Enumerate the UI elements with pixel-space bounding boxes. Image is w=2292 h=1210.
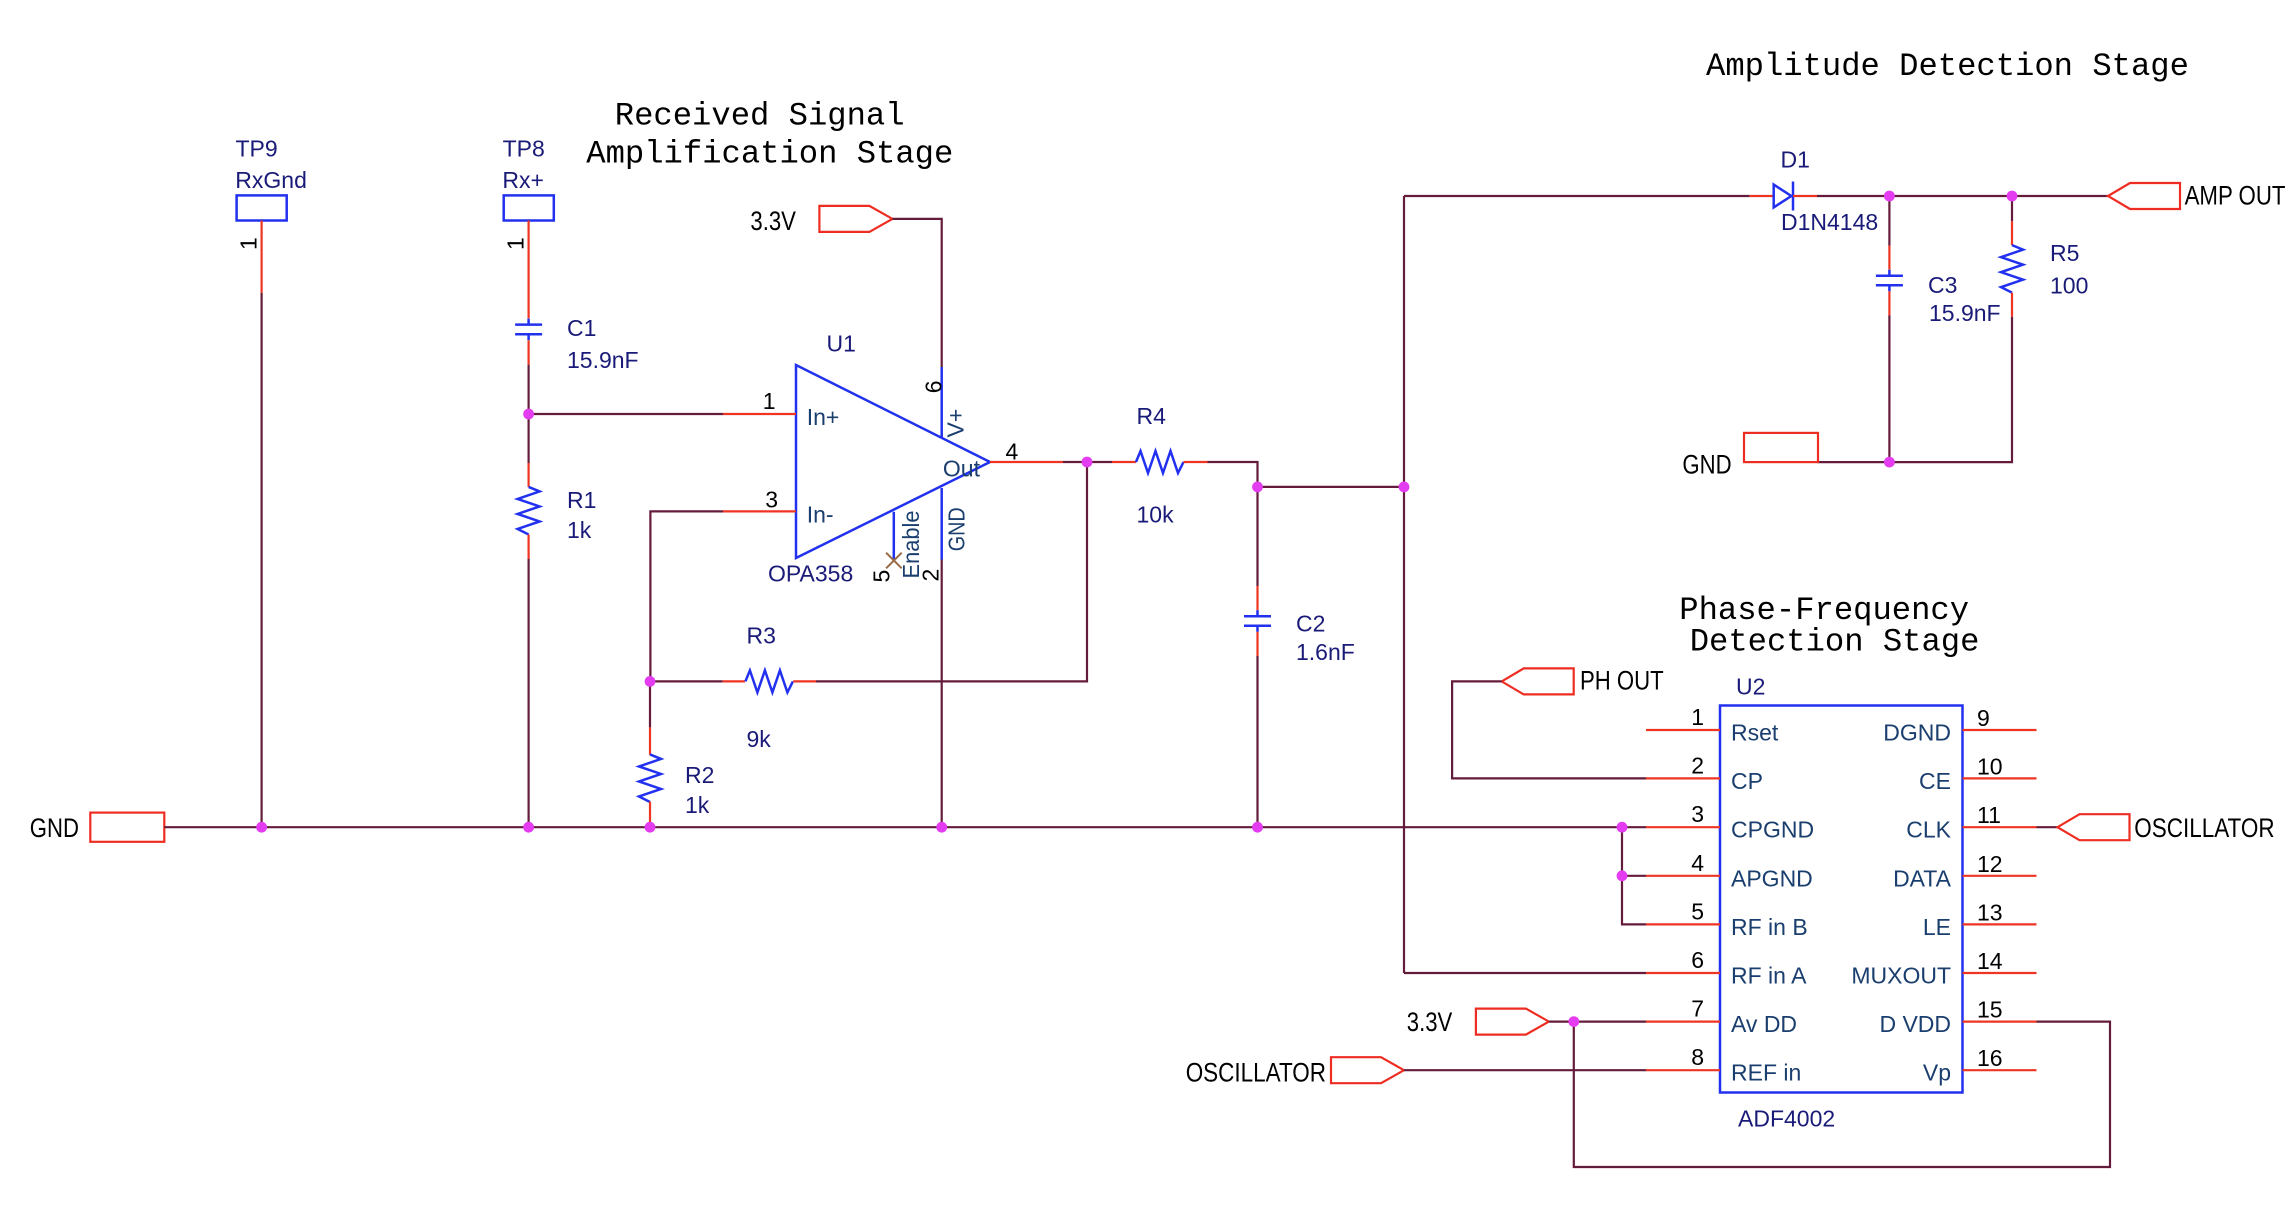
svg-text:C2: C2 [1296, 611, 1325, 637]
svg-text:R3: R3 [747, 623, 776, 649]
IC U2 ADF4002 body [1720, 674, 1963, 1132]
svg-text:D VDD: D VDD [1879, 1011, 1951, 1037]
wire OSCILLATOR to REF in [1404, 1069, 1646, 1071]
svg-text:TP9: TP9 [236, 136, 278, 162]
wire CLK to OSCILLATOR port [2037, 826, 2058, 828]
wire TP9 to GND bus [261, 293, 263, 827]
svg-text:PH OUT: PH OUT [1580, 666, 1664, 696]
svg-text:1: 1 [763, 388, 776, 414]
svg-text:R4: R4 [1137, 403, 1167, 429]
U2 pin 12 DATA [1893, 851, 2036, 892]
wire R4 to C2 node [1208, 462, 1258, 487]
capacitor C2 1.6nF [1244, 586, 1355, 665]
wire C3 to GND node [1888, 316, 1890, 463]
test point TP9 (RxGnd) [235, 136, 307, 221]
junction R5 top node [2007, 191, 2018, 202]
wire R1 to GND bus [527, 559, 529, 827]
bottom lead of C1 [527, 340, 529, 364]
power port 3.3V (U2 supply) [1407, 1007, 1549, 1037]
resistor R4 10k [1112, 403, 1208, 528]
resistor R3 9k [650, 623, 816, 753]
wire R5 node to AMP OUT port [2012, 195, 2108, 197]
power port 3.3V (op-amp supply) [750, 206, 892, 236]
wire C1 to node A [527, 365, 529, 414]
svg-text:GND: GND [30, 813, 79, 843]
wire R5 to GND wire [1818, 317, 2012, 462]
title: Amplitude Detection Stage [1706, 48, 2189, 85]
wire R5 node down to R5 [2011, 196, 2013, 221]
U1 pin 6 V+ pin [920, 367, 968, 438]
junction C3 top node [1884, 191, 1895, 202]
port OSCILLATOR (REF in) [1186, 1057, 1404, 1087]
junction Out node [1082, 457, 1093, 468]
U1 pin 4 Out stub [990, 439, 1063, 465]
U2 pin 11 CLK [1906, 802, 2036, 843]
svg-text:U1: U1 [827, 331, 856, 357]
junction node A (C1/R1/In+) [523, 409, 534, 420]
junction on detector vertical [1399, 482, 1410, 493]
svg-text:4: 4 [1691, 850, 1704, 876]
svg-text:Av DD: Av DD [1731, 1011, 1797, 1037]
U2 pin 14 MUXOUT [1851, 948, 2036, 989]
svg-text:15.9nF: 15.9nF [567, 347, 639, 373]
svg-text:CLK: CLK [1906, 817, 1951, 843]
wire Out pin to R4 [1063, 461, 1112, 463]
capacitor C3 15.9nF [1876, 246, 2001, 327]
U2 pin 9 DGND [1883, 705, 2036, 746]
svg-text:1.6nF: 1.6nF [1296, 639, 1355, 665]
wire detector vertical to RF in A [1404, 972, 1646, 974]
U1 pin 1 In+ stub [723, 388, 796, 414]
U2 pin 6 RF in A [1646, 947, 1807, 989]
svg-text:Vp: Vp [1923, 1060, 1951, 1086]
svg-text:AMP OUT: AMP OUT [2185, 181, 2286, 211]
wire D1 to C3 node [1817, 195, 1889, 197]
junction GND bus / TP9 [256, 822, 267, 833]
title: Received Signal Amplification Stage [586, 98, 953, 173]
wire R3 node to R2 [649, 681, 651, 727]
junction GND bus / U1 GND [936, 822, 947, 833]
junction GND bus / C2 [1252, 822, 1263, 833]
wire In- to R3 node [650, 511, 723, 681]
svg-text:3.3V: 3.3V [1407, 1007, 1453, 1037]
wire C2 to GND bus [1256, 656, 1258, 827]
svg-text:Detection Stage: Detection Stage [1690, 623, 1980, 660]
svg-text:DGND: DGND [1883, 720, 1951, 746]
svg-text:D1N4148: D1N4148 [1781, 209, 1878, 235]
svg-text:9: 9 [1977, 705, 1990, 731]
svg-text:10k: 10k [1137, 502, 1175, 528]
port AMP OUT [2108, 181, 2286, 211]
U2 pin 4 APGND [1646, 850, 1813, 892]
svg-text:R1: R1 [567, 487, 596, 513]
svg-text:Amplification Stage: Amplification Stage [586, 136, 953, 173]
svg-text:15: 15 [1977, 997, 2003, 1023]
junction APGND branch [1617, 870, 1628, 881]
U2 pin 2 CP [1646, 752, 1763, 794]
svg-text:TP8: TP8 [503, 136, 545, 162]
svg-text:3: 3 [765, 487, 778, 513]
U2 pin 13 LE [1923, 899, 2037, 940]
ground port GND (main bus) [30, 813, 165, 843]
svg-text:11: 11 [1977, 802, 2001, 828]
svg-text:RF in B: RF in B [1731, 914, 1808, 940]
U2 pin 16 Vp [1923, 1045, 2037, 1086]
svg-text:D1: D1 [1781, 146, 1810, 172]
svg-text:3.3V: 3.3V [750, 206, 796, 236]
svg-text:OPA358: OPA358 [768, 561, 853, 587]
U2 pin 8 REF in [1646, 1044, 1801, 1086]
svg-text:CP: CP [1731, 768, 1763, 794]
wire node A to op-amp In+ [529, 413, 723, 415]
U1 pin 3 In- stub [723, 487, 796, 513]
svg-text:7: 7 [1691, 996, 1704, 1022]
junction C3 bottom / GND [1884, 457, 1895, 468]
junction R3/R2/In- node [645, 676, 656, 687]
svg-text:V+: V+ [943, 409, 969, 438]
svg-text:1k: 1k [567, 517, 592, 543]
svg-text:LE: LE [1923, 914, 1951, 940]
U1 pin 5 Enable pin [869, 511, 925, 583]
svg-text:Out: Out [943, 456, 981, 482]
pin 1 of TP9 [236, 221, 262, 293]
svg-text:ADF4002: ADF4002 [1738, 1106, 1835, 1132]
svg-text:1: 1 [503, 237, 529, 250]
wire detector vertical to D1 [1404, 195, 1750, 197]
capacitor C1 15.9nF [515, 315, 639, 373]
junction GND bus / CPGND branch [1617, 822, 1628, 833]
svg-text:5: 5 [869, 570, 895, 583]
svg-text:R2: R2 [685, 762, 714, 788]
svg-text:CPGND: CPGND [1731, 817, 1814, 843]
port PH OUT [1502, 666, 1664, 696]
svg-text:GND: GND [944, 507, 970, 551]
wire PH OUT to U2 CP [1452, 681, 1646, 778]
svg-text:6: 6 [1691, 947, 1704, 973]
junction GND bus / R1 [523, 822, 534, 833]
svg-text:Rset: Rset [1731, 720, 1779, 746]
wire R3 to Out node [816, 462, 1087, 681]
wire C2 node down to C2 [1256, 487, 1258, 586]
U2 pin 15 D VDD [1879, 997, 2036, 1038]
svg-text:1k: 1k [685, 792, 710, 818]
svg-text:8: 8 [1691, 1044, 1704, 1070]
svg-text:Received Signal: Received Signal [615, 98, 905, 135]
svg-text:OSCILLATOR: OSCILLATOR [2134, 813, 2274, 843]
wire 3.3V junction to D VDD (bottom loop) [1574, 1022, 2110, 1167]
U2 pin 1 Rset [1646, 704, 1779, 746]
resistor R1 1k [518, 463, 597, 559]
wire 3.3V to U1 V+ [892, 219, 941, 367]
svg-text:RxGnd: RxGnd [235, 167, 307, 193]
wire C3 node down to C3 [1888, 196, 1890, 246]
resistor R5 100 [2001, 221, 2088, 317]
svg-text:Enable: Enable [898, 511, 924, 579]
svg-text:C3: C3 [1928, 272, 1957, 298]
svg-text:R5: R5 [2050, 240, 2079, 266]
svg-text:Rx+: Rx+ [502, 167, 544, 193]
op-amp U1 OPA358 triangle [768, 331, 990, 587]
svg-text:13: 13 [1977, 899, 2003, 925]
svg-text:16: 16 [1977, 1045, 2003, 1071]
pin 1 of TP8 / top lead of C1 [503, 221, 529, 319]
svg-text:10: 10 [1977, 753, 2003, 779]
resistor R2 1k [639, 727, 714, 827]
svg-text:4: 4 [1006, 439, 1019, 465]
svg-text:1: 1 [1691, 704, 1704, 730]
svg-text:100: 100 [2050, 272, 2088, 298]
test point TP8 (Rx+) [502, 136, 553, 221]
svg-text:OSCILLATOR: OSCILLATOR [1186, 1057, 1326, 1087]
svg-text:MUXOUT: MUXOUT [1851, 963, 1951, 989]
svg-text:9k: 9k [747, 726, 772, 752]
wire U1 GND pin to GND bus [941, 560, 943, 828]
svg-text:DATA: DATA [1893, 865, 1952, 891]
svg-text:6: 6 [920, 381, 946, 394]
U1 pin 2 GND pin [917, 488, 969, 582]
title: Phase-Frequency Detection Stage [1679, 592, 1979, 660]
no-connect X on Enable [886, 553, 902, 569]
U2 pin 10 CE [1919, 753, 2036, 794]
wire GND bus branch to APGND / RF in B [1622, 827, 1646, 924]
svg-text:REF in: REF in [1731, 1060, 1801, 1086]
svg-text:RF in A: RF in A [1731, 963, 1807, 989]
svg-text:CE: CE [1919, 768, 1951, 794]
svg-text:3: 3 [1691, 801, 1704, 827]
svg-text:In-: In- [807, 501, 834, 527]
svg-text:5: 5 [1691, 898, 1704, 924]
svg-text:In+: In+ [807, 404, 840, 430]
svg-text:14: 14 [1977, 948, 2003, 974]
svg-text:Amplitude Detection Stage: Amplitude Detection Stage [1706, 48, 2189, 85]
junction 3.3V / D VDD loop [1568, 1016, 1579, 1027]
svg-text:1: 1 [236, 237, 262, 250]
diode D1 D1N4148 [1750, 146, 1878, 234]
wire diode node vertical (to RF in A) [1403, 196, 1405, 973]
U2 pin 3 CPGND [1646, 801, 1814, 843]
U2 pin 5 RF in B [1646, 898, 1808, 940]
svg-text:GND: GND [1682, 450, 1731, 480]
junction GND bus / R2 [645, 822, 656, 833]
wire 3.3V to Av DD [1549, 1020, 1646, 1022]
svg-text:U2: U2 [1736, 674, 1765, 700]
svg-text:15.9nF: 15.9nF [1929, 300, 2001, 326]
wire C2 node to detector vertical [1258, 486, 1405, 488]
U2 pin 7 Av DD [1646, 996, 1797, 1038]
svg-text:2: 2 [1691, 752, 1704, 778]
GND bus wire [164, 826, 1646, 828]
svg-text:APGND: APGND [1731, 865, 1813, 891]
wire node A to R1 [527, 414, 529, 463]
junction C2 node [1252, 482, 1263, 493]
ground port GND (amplitude stage) [1682, 433, 1818, 480]
port OSCILLATOR (CLK) [2058, 813, 2275, 843]
svg-text:12: 12 [1977, 851, 2003, 877]
svg-text:C1: C1 [567, 315, 596, 341]
wire C3 node to R5 node [1889, 195, 2012, 197]
